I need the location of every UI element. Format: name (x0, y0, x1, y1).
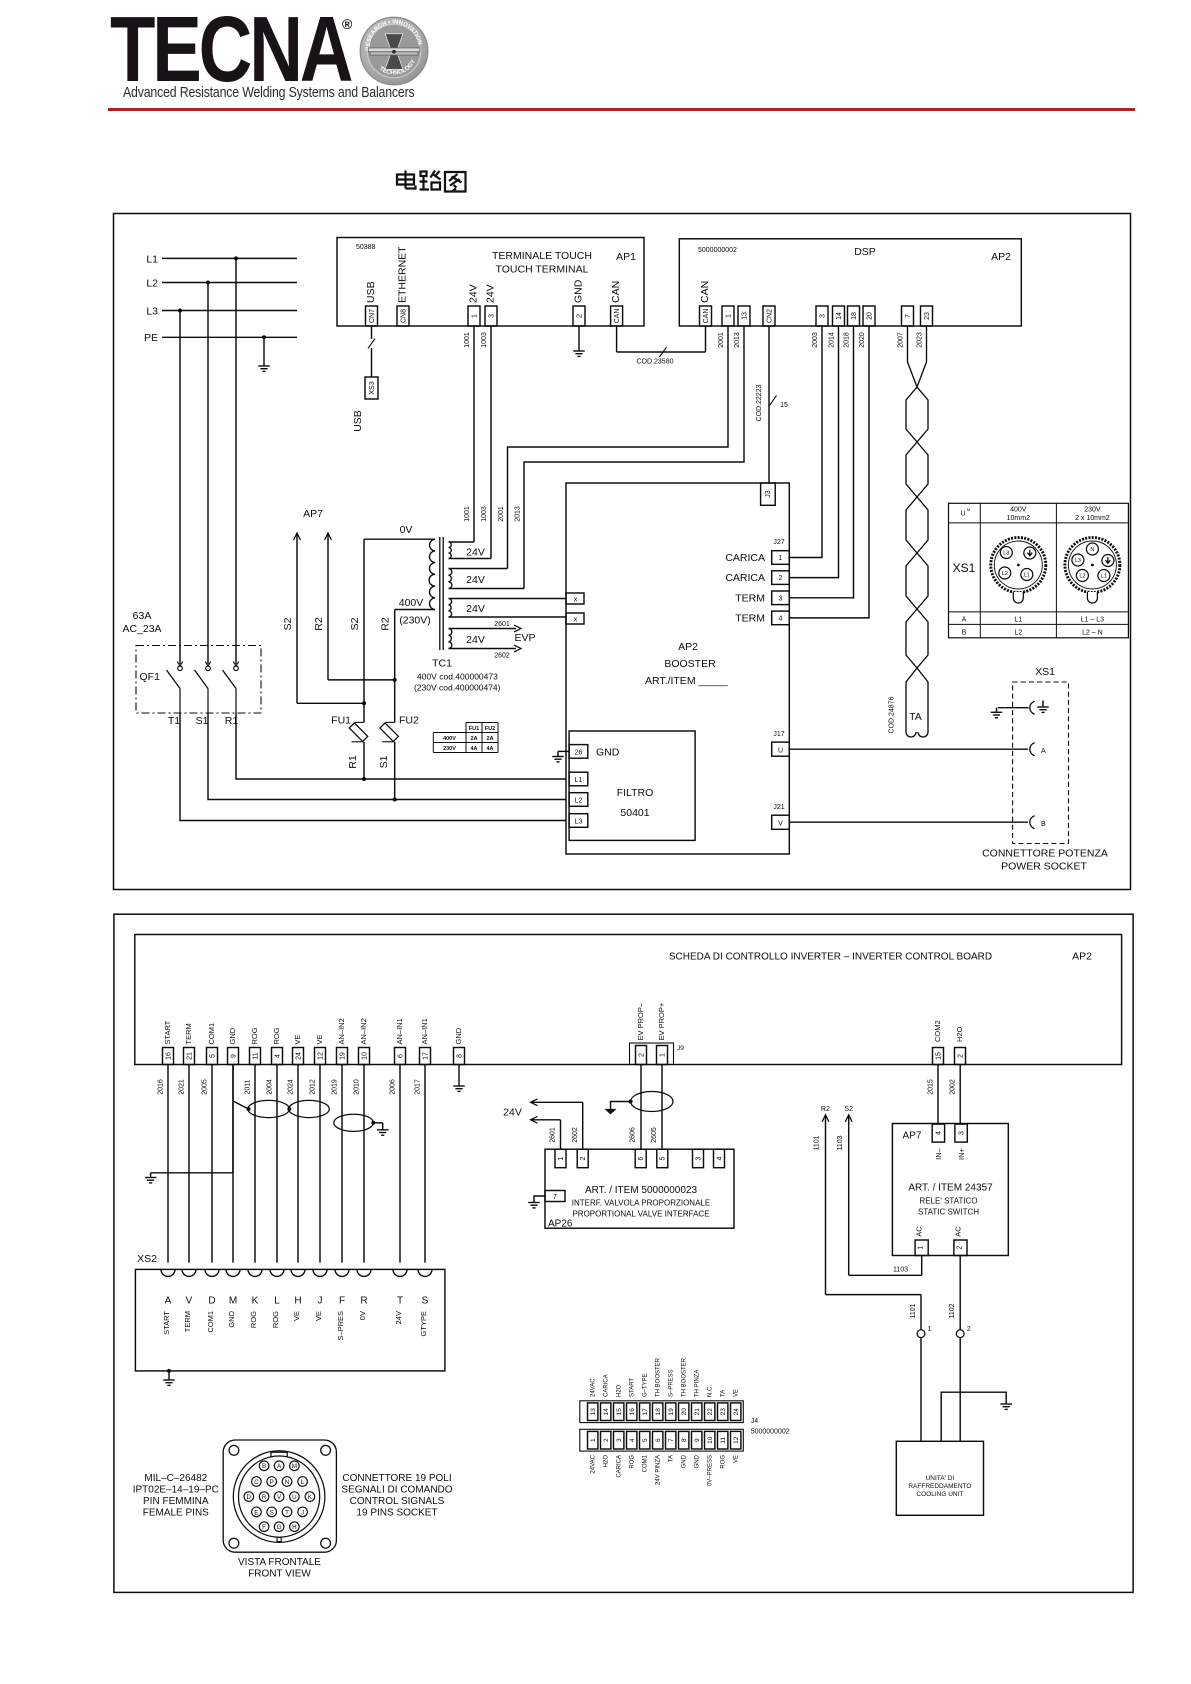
svg-text:2605: 2605 (651, 1127, 658, 1143)
AP7 pin 4 IN- (932, 1124, 944, 1142)
MIL pin K (305, 1492, 315, 1502)
svg-text:0V–PRESS: 0V–PRESS (708, 1455, 714, 1486)
svg-text:16: 16 (165, 1052, 172, 1060)
AP26 pin 4 (714, 1149, 725, 1168)
wire board to XS2 H (297, 1065, 299, 1263)
svg-text:ROG: ROG (250, 1027, 259, 1044)
svg-text:17: 17 (422, 1052, 429, 1060)
socket 400V connector face (991, 538, 1046, 593)
svg-text:3: 3 (958, 1131, 965, 1135)
svg-text:AC: AC (953, 1226, 962, 1237)
MIL pin S (267, 1507, 277, 1517)
board pin 10 AN–IN2 (359, 1048, 370, 1065)
svg-text:N.C.: N.C. (708, 1385, 714, 1397)
svg-text:GND: GND (695, 1454, 701, 1468)
svg-text:K: K (252, 1296, 259, 1307)
svg-text:2016: 2016 (158, 1079, 165, 1095)
AP1 pin CAN (611, 306, 623, 326)
svg-text:4: 4 (629, 1438, 636, 1442)
svg-text:F: F (339, 1296, 345, 1307)
arrow R2 to AP7 (325, 533, 332, 540)
svg-text:S–PRESS: S–PRESS (669, 1369, 675, 1397)
AP1 pin 2 (573, 306, 585, 326)
svg-text:14: 14 (603, 1408, 610, 1416)
svg-text:4: 4 (274, 1054, 281, 1058)
svg-text:0V: 0V (358, 1311, 367, 1320)
svg-text:1: 1 (918, 1246, 925, 1250)
svg-text:2017: 2017 (415, 1079, 422, 1095)
svg-text:5: 5 (660, 1156, 667, 1160)
wire board to XS2 R (363, 1065, 365, 1263)
svg-text:2: 2 (967, 1326, 971, 1333)
wire L2 drop (206, 281, 210, 285)
svg-text:19 PINS SOCKET: 19 PINS SOCKET (356, 1508, 437, 1519)
svg-text:9: 9 (230, 1054, 237, 1058)
cooling unit box (896, 1441, 983, 1515)
J4 terminal 3 CARICA (614, 1431, 624, 1449)
filter FILTRO 50401 (569, 731, 695, 840)
MIL pin J (298, 1507, 308, 1517)
J4 terminal 19 S–PRESS (666, 1403, 676, 1421)
svg-text:COM1: COM1 (643, 1454, 649, 1472)
wire TERM1 to DSP.18 (789, 326, 853, 598)
svg-text:2006: 2006 (390, 1079, 397, 1095)
svg-text:5: 5 (642, 1438, 649, 1442)
wire U to XS1.A (789, 748, 1028, 750)
TC1 secondary winding 1 24V (449, 542, 452, 559)
svg-text:S–PRES: S–PRES (336, 1311, 345, 1341)
wire board to XS2 K (254, 1065, 256, 1263)
FILTRO pin L1 (569, 772, 588, 786)
svg-text:7: 7 (553, 1194, 557, 1201)
svg-text:MIL–C–26482: MIL–C–26482 (144, 1473, 207, 1484)
svg-text:24: 24 (295, 1052, 302, 1060)
booster AP2 box (566, 483, 789, 854)
svg-text:IN+: IN+ (957, 1147, 966, 1160)
XS2 contact D COM1 (205, 1269, 219, 1276)
svg-text:16: 16 (629, 1408, 636, 1416)
ground external XS1 (996, 708, 998, 713)
svg-text:COM1: COM1 (207, 1023, 216, 1045)
svg-text:5: 5 (209, 1054, 216, 1058)
XS2 contact F S–PRES (335, 1269, 349, 1276)
shield oval VE pair (289, 1100, 330, 1117)
AP26 pin 3 (693, 1149, 704, 1168)
wire GND AP1.2 to ground (578, 326, 580, 351)
wire TERM2 to DSP.20 (789, 326, 869, 618)
svg-text:24V: 24V (503, 1107, 522, 1119)
FILTRO pin L3 (569, 814, 588, 828)
svg-text:VE: VE (314, 1311, 323, 1321)
svg-text:1101: 1101 (814, 1135, 821, 1150)
svg-text:TH PINZA: TH PINZA (695, 1370, 701, 1397)
board pin J9.1 EV PROP+ (657, 1046, 668, 1065)
AP26 pin 2 (577, 1149, 588, 1168)
wire cooling ground (941, 1392, 1006, 1441)
svg-text:H2O: H2O (604, 1455, 610, 1468)
AP2 pin J27.1 CARICA (772, 551, 790, 565)
svg-text:TH BOOSTER: TH BOOSTER (682, 1357, 688, 1397)
AP2 pin J27.3 TERM (772, 591, 790, 605)
char dian (397, 171, 416, 189)
svg-text:V: V (277, 1494, 282, 1501)
svg-text:23: 23 (720, 1408, 727, 1416)
TECNA medallion (357, 14, 432, 89)
svg-text:ROG: ROG (271, 1311, 280, 1328)
wire CARICA2 to DSP.14 (789, 326, 838, 578)
ground AN-IN2 shield (377, 1129, 389, 1131)
fuse rating table (466, 722, 498, 724)
wire T1 out to L3 bus (180, 713, 566, 821)
MIL pin P (267, 1477, 277, 1487)
svg-text:VE: VE (315, 1034, 324, 1044)
svg-text:VE: VE (292, 1311, 301, 1321)
svg-text:TERM: TERM (184, 1023, 193, 1044)
svg-text:H2O: H2O (955, 1026, 964, 1042)
svg-text:N: N (285, 1479, 290, 1486)
ground FILTRO (558, 750, 569, 752)
shield drain to frame (611, 1102, 631, 1109)
svg-text:VE: VE (293, 1034, 302, 1044)
svg-text:2012: 2012 (310, 1079, 317, 1095)
J4 terminal 11 ROG (718, 1431, 728, 1449)
svg-text:XS2: XS2 (137, 1253, 157, 1265)
MIL pin R (259, 1492, 269, 1502)
svg-text:13: 13 (590, 1408, 597, 1416)
svg-text:S: S (422, 1296, 429, 1307)
svg-text:24: 24 (733, 1408, 740, 1416)
board pin 2 H2O (955, 1048, 966, 1065)
ground XS2 (167, 1369, 171, 1373)
svg-text:11: 11 (252, 1052, 259, 1059)
svg-text:24VAC: 24VAC (591, 1454, 597, 1473)
svg-text:CONTROL SIGNALS: CONTROL SIGNALS (350, 1496, 445, 1507)
TC1 secondary winding 3 24V (449, 599, 452, 618)
AP2 pin J27.4 TERM (772, 611, 790, 625)
svg-text:2021: 2021 (179, 1079, 186, 1095)
svg-text:IPT02E–14–19–PC: IPT02E–14–19–PC (133, 1485, 219, 1496)
MIL pin B (259, 1461, 269, 1471)
J4 terminal 10 0V–PRESS (705, 1431, 715, 1449)
J4 terminal 5 COM1 (640, 1431, 650, 1449)
svg-text:GND: GND (228, 1027, 237, 1044)
board pin 6 AN–IN1 (395, 1048, 406, 1065)
svg-text:AP26: AP26 (548, 1219, 573, 1230)
wire board to XS2 A (167, 1065, 169, 1263)
svg-text:1103: 1103 (837, 1135, 844, 1150)
svg-text:R2: R2 (821, 1106, 830, 1113)
svg-text:C: C (254, 1479, 259, 1486)
AP26 pin 6 (635, 1149, 646, 1168)
DSP pin 7 (902, 306, 914, 326)
svg-text:2: 2 (956, 1246, 963, 1250)
svg-text:AN–IN2: AN–IN2 (359, 1018, 368, 1044)
MIL pin L (298, 1477, 308, 1487)
svg-text:2606: 2606 (630, 1127, 637, 1143)
ground cooling (1000, 1403, 1012, 1405)
J4 terminal 17 G–TYPE (640, 1403, 650, 1421)
char tu (445, 172, 466, 192)
svg-text:24V: 24V (394, 1311, 403, 1324)
svg-text:STATIC SWITCH: STATIC SWITCH (918, 1208, 979, 1217)
svg-text:11: 11 (720, 1436, 727, 1443)
wire board to XS2 J (319, 1065, 321, 1263)
svg-text:H2O: H2O (617, 1384, 623, 1397)
svg-text:6: 6 (397, 1054, 404, 1058)
svg-text:VISTA FRONTALE: VISTA FRONTALE (238, 1557, 321, 1568)
wire V to XS1.B (789, 821, 1028, 823)
MIL pin F (259, 1522, 269, 1532)
DSP pin 3 (816, 306, 828, 326)
svg-text:J9: J9 (677, 1045, 684, 1052)
MIL pin D (244, 1492, 254, 1502)
wire board to XS2 F (341, 1065, 343, 1263)
title 电路图 (drawn) (394, 169, 472, 197)
J4 terminal 20 TH BOOSTER (679, 1403, 689, 1421)
shield oval ROG pair (248, 1100, 290, 1117)
ground PE (258, 365, 270, 367)
DSP pin 20 (863, 306, 875, 326)
touch terminal AP1 (337, 238, 644, 327)
svg-text:P: P (270, 1479, 274, 1486)
ground left of XS2 (145, 1177, 157, 1179)
MIL pin M (290, 1461, 300, 1471)
XS2 contact J VE (313, 1269, 327, 1276)
AP26 pin 5 (657, 1149, 668, 1168)
svg-text:20: 20 (681, 1408, 688, 1416)
board pin 15 COM2 (933, 1048, 944, 1065)
MIL pin E (252, 1507, 262, 1517)
svg-text:T: T (285, 1509, 289, 1516)
wire 2002 H2O to AP7.3 (959, 1065, 961, 1125)
svg-text:ROG: ROG (721, 1455, 727, 1469)
svg-text:8: 8 (456, 1054, 463, 1058)
svg-text:GTYPE: GTYPE (419, 1311, 428, 1336)
AP2 pin X2 (566, 613, 584, 624)
J4 terminal 6 24V PINZA (653, 1431, 663, 1449)
svg-text:2010: 2010 (354, 1079, 361, 1095)
switch pole R1 (233, 662, 239, 667)
wire board to XS2 V (188, 1065, 190, 1263)
MIL pin A (274, 1461, 284, 1471)
XS2 contact H VE (291, 1269, 305, 1276)
static switch AP7 box (892, 1124, 1008, 1256)
transformer TC1 core (439, 537, 441, 650)
svg-text:2015: 2015 (928, 1079, 935, 1095)
svg-text:G–TYPE: G–TYPE (643, 1373, 649, 1397)
svg-text:8: 8 (681, 1438, 688, 1442)
svg-text:H: H (294, 1296, 301, 1307)
J4 terminal 21 TH PINZA (692, 1403, 702, 1421)
AP2 pin J27.2 CARICA (772, 571, 790, 585)
XS2 contact V TERM (182, 1269, 196, 1276)
svg-text:2601: 2601 (550, 1127, 557, 1143)
svg-text:PIN FEMMINA: PIN FEMMINA (143, 1496, 209, 1507)
svg-text:RELE' STATICO: RELE' STATICO (919, 1197, 977, 1206)
svg-text:19: 19 (668, 1408, 675, 1416)
XS1 contact B (1030, 816, 1035, 829)
svg-text:TH BOOSTER: TH BOOSTER (656, 1357, 662, 1397)
svg-text:AP2: AP2 (1072, 951, 1092, 963)
svg-text:V: V (186, 1296, 193, 1307)
subtitle (123, 85, 415, 101)
svg-text:SEGNALI DI COMANDO: SEGNALI DI COMANDO (341, 1485, 452, 1496)
svg-text:1: 1 (558, 1156, 565, 1160)
MIL pin C (252, 1477, 262, 1487)
AP1 pin CN7 (366, 306, 378, 326)
wire J9.2 to AP26.6 (640, 1065, 642, 1150)
svg-text:12: 12 (733, 1436, 740, 1444)
socket table XS1 (949, 503, 1129, 638)
wire 1003 AP1.3 to TC1 (490, 326, 492, 559)
svg-text:21: 21 (694, 1408, 701, 1416)
wire J9.1 to AP26.5 (661, 1065, 663, 1150)
XS2 contact T 24V (393, 1269, 407, 1276)
AP26 pin 7 (545, 1191, 565, 1202)
cooling plug contact 1 (917, 1330, 925, 1338)
svg-text:5000000002: 5000000002 (751, 1429, 790, 1436)
svg-text:10: 10 (707, 1436, 714, 1444)
board connector J9 (630, 1043, 674, 1065)
J4 terminal 22 N.C. (705, 1403, 715, 1421)
wire USB to XS3 (371, 326, 373, 339)
svg-text:2004: 2004 (267, 1079, 274, 1095)
J4 terminal 15 H2O (614, 1403, 624, 1421)
svg-text:L: L (301, 1479, 305, 1486)
svg-text:22: 22 (707, 1408, 714, 1416)
J4 terminal 14 CARICA (601, 1403, 611, 1421)
FILTRO pin 26 GND (569, 745, 588, 759)
DSP pin 14 (833, 306, 845, 326)
AP1 pin 1 (468, 306, 480, 326)
wire board to XS2 T (399, 1065, 401, 1263)
svg-text:RAFFREDDAMENTO: RAFFREDDAMENTO (908, 1483, 971, 1490)
DSP pin 1 (722, 306, 734, 326)
DSP pin CAN (700, 306, 712, 326)
svg-text:ROG: ROG (249, 1311, 258, 1328)
wire GND pin8 to ground (458, 1065, 460, 1087)
J4 terminal 7 TA (666, 1431, 676, 1449)
AP1 pin 3 (485, 306, 497, 326)
MIL pin N (282, 1477, 292, 1487)
svg-text:H: H (292, 1524, 297, 1531)
board pin J9.2 EV PROP- (636, 1046, 647, 1065)
svg-text:COOLING UNIT: COOLING UNIT (916, 1491, 963, 1498)
switch pole S1 (205, 662, 211, 667)
svg-text:AN–IN2: AN–IN2 (337, 1018, 346, 1044)
svg-text:T: T (397, 1296, 403, 1307)
svg-text:GND: GND (227, 1310, 236, 1327)
svg-text:4: 4 (936, 1131, 943, 1135)
board pin 8 GND (454, 1048, 465, 1065)
J4 terminal 4 ROG (627, 1431, 637, 1449)
svg-text:ROG: ROG (630, 1455, 636, 1469)
svg-text:K: K (308, 1494, 313, 1501)
AP26 pin 1 (555, 1149, 566, 1168)
svg-text:15: 15 (935, 1052, 942, 1060)
MIL pin H (290, 1522, 300, 1532)
XS2 contact M GND (226, 1269, 240, 1276)
svg-text:1: 1 (659, 1053, 666, 1057)
svg-text:TA: TA (721, 1390, 727, 1397)
svg-text:A: A (165, 1296, 172, 1307)
MIL pin G (274, 1522, 284, 1532)
arrow S2 to AP7 (294, 533, 301, 540)
svg-text:7: 7 (668, 1438, 675, 1442)
board pin 9 GND (228, 1048, 239, 1065)
wire L3 drop (178, 309, 182, 313)
transformer TC1 primary winding (429, 539, 435, 609)
wire 1101 R2 to cooling 1 (826, 1294, 922, 1296)
svg-text:S2: S2 (844, 1106, 853, 1113)
svg-text:24VAC: 24VAC (591, 1378, 597, 1397)
DSP pin 23 (921, 306, 933, 326)
XS2 contact R 0V (357, 1269, 371, 1276)
svg-text:TERM: TERM (183, 1311, 192, 1332)
XS2 contact A START (161, 1269, 175, 1276)
board pin 24 VE (293, 1048, 304, 1065)
XS2 contact S GTYPE (418, 1269, 432, 1276)
wire CN2 to J3 COD.22223 (768, 326, 770, 483)
wire PE drop (262, 335, 266, 339)
J4 terminal 13 24VAC (588, 1403, 598, 1421)
red rule (108, 108, 1135, 111)
svg-text:D: D (208, 1296, 215, 1307)
svg-text:21: 21 (186, 1052, 193, 1060)
svg-text:S: S (270, 1509, 274, 1516)
J4 terminal 23 TA (718, 1403, 728, 1421)
board pin 11 ROG (250, 1048, 261, 1065)
svg-text:J: J (301, 1509, 304, 1516)
svg-text:18: 18 (655, 1408, 662, 1416)
svg-text:4: 4 (716, 1156, 723, 1160)
svg-text:J4: J4 (751, 1418, 759, 1425)
svg-text:2002: 2002 (950, 1079, 957, 1095)
wire board to XS2 S (424, 1065, 426, 1263)
AP2 pin J3 (761, 483, 776, 505)
svg-text:EV PROP+: EV PROP+ (657, 1002, 666, 1040)
board pin 4 ROG (272, 1048, 283, 1065)
wire board to XS2 L (276, 1065, 278, 1263)
svg-text:9: 9 (694, 1438, 701, 1442)
DSP board AP2 (679, 239, 1021, 326)
XS2 contact L ROG (270, 1269, 284, 1276)
MIL pin V (274, 1492, 284, 1502)
XS2 contact K ROG (248, 1269, 262, 1276)
schematic sheet 1 frame (114, 214, 1131, 890)
schematic sheet 2 frame (114, 914, 1133, 1592)
MIL pin T (282, 1507, 292, 1517)
svg-text:GND: GND (682, 1454, 688, 1468)
J4 terminal 9 GND (692, 1431, 702, 1449)
svg-text:AN–IN1: AN–IN1 (420, 1018, 429, 1044)
wire CARICA1 to DSP.3 (789, 326, 822, 558)
svg-text:AN–IN1: AN–IN1 (395, 1018, 404, 1044)
svg-text:FRONT VIEW: FRONT VIEW (248, 1569, 311, 1580)
valve interface AP26 box (545, 1149, 734, 1228)
svg-text:ROG: ROG (272, 1027, 281, 1044)
svg-text:TA: TA (669, 1455, 675, 1462)
wire 2601 to 24V (531, 1116, 538, 1123)
svg-text:E: E (254, 1509, 258, 1516)
svg-text:GND: GND (454, 1027, 463, 1044)
shield oval J9 pair (631, 1092, 673, 1112)
svg-text:1103: 1103 (893, 1267, 908, 1274)
current transformer TA twisted pair (906, 326, 928, 732)
XS1 contact A (1030, 743, 1035, 756)
svg-text:2024: 2024 (288, 1079, 295, 1095)
svg-text:2011: 2011 (245, 1079, 252, 1094)
